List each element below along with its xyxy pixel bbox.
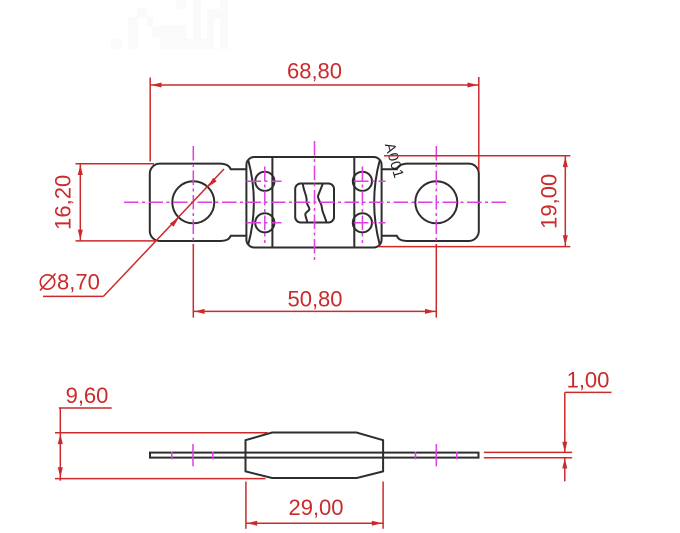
arrow 16,20 bottom <box>78 230 83 241</box>
dim 19,00 extension line bottom <box>379 246 571 248</box>
arrow 68,80 left <box>151 83 162 88</box>
arrow 19,00 top <box>563 157 568 168</box>
fuse body outline <box>246 157 381 248</box>
element window <box>295 184 334 223</box>
dim 1,00 extension line bottom <box>484 457 572 459</box>
svg-text:9,60: 9,60 <box>66 383 109 408</box>
arrow 29,00 left <box>247 521 258 526</box>
arrow dia8,70 lower (on circle, pointing up-right) <box>170 218 179 227</box>
side view hole edge tick right-a <box>415 452 417 460</box>
arrow 19,00 bottom <box>563 235 568 246</box>
rivet row centerline top-left <box>247 180 282 182</box>
dim 19,00 extension line top <box>384 155 570 157</box>
right hole vertical centerline <box>435 146 437 247</box>
arrow 50,80 left <box>194 309 205 314</box>
dim 9,60 dimension line <box>59 408 61 481</box>
fuse element right curve <box>318 184 326 222</box>
rivet column centerline right <box>361 167 363 244</box>
left mounting hole <box>172 181 214 223</box>
rivet top-left <box>255 172 274 191</box>
dim 29,00 dimension line <box>246 522 383 524</box>
body divider line left <box>271 157 273 248</box>
arrow 50,80 right <box>425 309 436 314</box>
right terminal tab + neck (metal strap right) <box>376 164 479 241</box>
diameter symbol for 8,70 <box>40 274 56 291</box>
dim 29,00 extension line left <box>245 482 247 529</box>
dim 50,80 dimension line <box>193 310 436 312</box>
side view hole centerline right <box>435 444 437 466</box>
dim 1,00 dimension line upper <box>564 392 566 452</box>
dim 1,00 leader underline <box>565 391 612 393</box>
main horizontal centerline <box>124 201 509 203</box>
rivet bottom-right <box>353 213 372 232</box>
svg-text:50,80: 50,80 <box>287 286 342 311</box>
watermark blocks top-left <box>111 0 228 49</box>
arrow 1,00 upper (pointing down to strap) <box>562 442 567 453</box>
svg-text:1,00: 1,00 <box>567 368 610 393</box>
arrow 9,60 bottom <box>58 467 63 478</box>
side view hole centerline left <box>192 444 194 466</box>
left terminal tab + neck (metal strap left) <box>150 164 252 241</box>
dim 16,20 extension line bottom <box>76 240 158 242</box>
dim 16,20 dimension line <box>79 164 81 241</box>
body left end arc <box>248 160 254 245</box>
dim 9,60 extension line bottom <box>55 478 266 480</box>
svg-text:16,20: 16,20 <box>51 175 76 230</box>
rivet row centerline top-right <box>354 180 386 182</box>
svg-text:8,70: 8,70 <box>57 270 100 295</box>
fuse element left curve <box>303 184 310 222</box>
dim 50,80 extension line left <box>192 244 194 318</box>
svg-text:68,80: 68,80 <box>287 59 342 84</box>
rivet row centerline bottom-right <box>354 222 386 224</box>
left hole vertical centerline <box>192 146 194 247</box>
arrow 29,00 right <box>372 521 383 526</box>
dim 9,60 extension line top <box>55 432 268 434</box>
dim 16,20 extension line top <box>76 163 155 165</box>
dim 68,80 dimension line <box>150 84 479 86</box>
body right end arc <box>374 160 380 245</box>
side view hole edge tick right-b <box>456 452 458 460</box>
arrow 9,60 top <box>58 434 63 445</box>
side view hole edge tick left-a <box>171 452 173 460</box>
dim 19,00 dimension line <box>564 156 566 247</box>
arrow 16,20 top <box>78 165 83 176</box>
dim 29,00 extension line right <box>382 482 384 529</box>
arrow dia8,70 upper (on circle, pointing down-left) <box>208 178 217 187</box>
dim 1,00 dimension line lower <box>564 458 566 482</box>
body divider line right <box>353 157 355 248</box>
body profile octagon <box>246 433 384 479</box>
side view hole edge tick left-b <box>212 452 214 460</box>
dim 50,80 extension line right <box>435 244 437 318</box>
dia 8,70 leader underline <box>43 295 103 297</box>
dim 68,80 extension line left <box>149 78 151 162</box>
svg-text:29,00: 29,00 <box>288 495 343 520</box>
arrow 1,00 lower (pointing up to strap) <box>562 458 567 469</box>
rivet bottom-left <box>255 213 274 232</box>
arrow 68,80 right <box>468 83 479 88</box>
svg-text:19,00: 19,00 <box>537 174 562 229</box>
body vertical centerline <box>314 141 316 261</box>
rivet row centerline bottom-left <box>247 222 282 224</box>
strap profile <box>150 453 479 458</box>
dim 68,80 extension line right <box>478 77 480 171</box>
dim 1,00 extension line top <box>484 451 572 453</box>
right mounting hole <box>415 181 457 223</box>
rivet column centerline left <box>264 167 266 244</box>
dim 9,60 leader underline <box>59 407 112 409</box>
rivet top-right <box>353 172 372 191</box>
dia 8,70 leader diagonal <box>103 169 224 296</box>
